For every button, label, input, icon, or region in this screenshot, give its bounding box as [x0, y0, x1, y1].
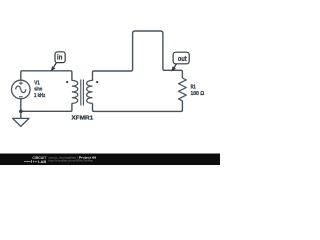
wire ground lead	[20, 111, 22, 118]
svg-text:XFMR1: XFMR1	[71, 116, 93, 122]
node junction dot at V1 bottom	[19, 110, 23, 114]
wire top-left net: V1 top to XFMR1 primary top	[21, 71, 72, 81]
resistor R1	[178, 78, 186, 101]
svg-text:100 Ω: 100 Ω	[191, 91, 205, 97]
svg-text:in: in	[57, 55, 62, 62]
secondary coil	[87, 80, 93, 103]
svg-text:http://circuitlab.com/c/99hc7e: http://circuitlab.com/c/99hc7ey4fac	[49, 158, 94, 162]
wire secondary top net with bump to out and R1 top	[93, 31, 183, 81]
transformer XFMR1	[72, 80, 93, 106]
svg-text:LAB: LAB	[38, 160, 47, 164]
phase dot primary	[66, 81, 68, 83]
wire secondary bottom net to R1 bottom	[93, 101, 183, 112]
svg-text:R1: R1	[191, 84, 196, 90]
footer bar	[0, 154, 220, 166]
phase dot secondary	[96, 81, 98, 83]
svg-text:sine: sine	[34, 87, 42, 93]
wire bottom-left net: V1 bottom to XFMR1 primary bottom	[21, 99, 72, 111]
voltage source V1	[11, 80, 30, 99]
svg-text:out: out	[178, 56, 187, 63]
flag out	[172, 52, 190, 71]
ground	[13, 118, 29, 126]
circuitlab logo	[24, 155, 47, 164]
flag in	[51, 52, 65, 72]
core	[81, 80, 84, 106]
primary coil	[72, 80, 78, 103]
svg-text:1 kHz: 1 kHz	[34, 93, 45, 99]
